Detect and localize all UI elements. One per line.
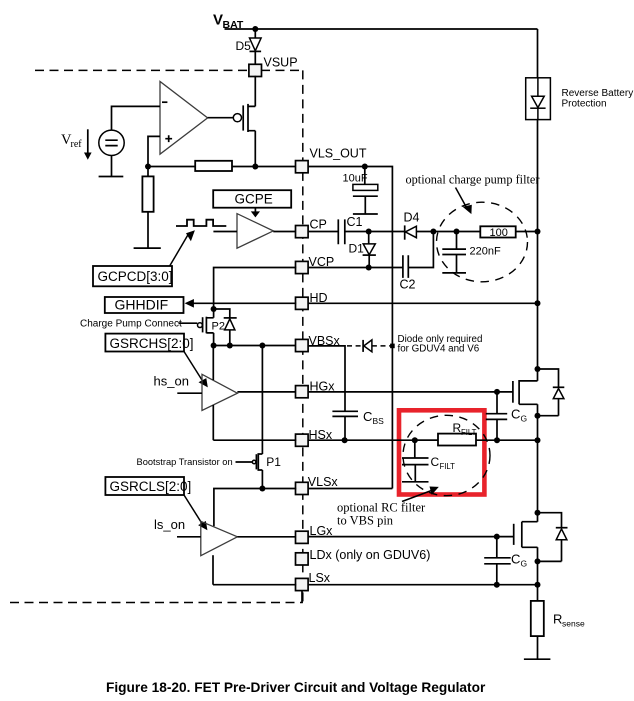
- svg-text:D1: D1: [349, 242, 365, 256]
- capacitor CBS bootstrap: [332, 409, 384, 440]
- dashed IC boundary top-right: [261, 69, 303, 71]
- svg-text:ls_on: ls_on: [154, 517, 185, 532]
- capacitor C1: [338, 215, 362, 244]
- junction CG-low bottom: [494, 582, 500, 588]
- svg-text:VSUP: VSUP: [264, 56, 298, 70]
- box GSRCHS[2:0]: [105, 334, 193, 352]
- svg-text:LDx (only on GDUV6): LDx (only on GDUV6): [310, 548, 431, 562]
- wire R1 to VLS_OUT pin: [232, 166, 296, 168]
- transistor Q3 PMOS pass device: [233, 104, 255, 132]
- wire U1 non-inverting input: [148, 136, 160, 166]
- wire VBAT rail to RBP: [537, 29, 539, 78]
- op-amp U1 regulator error amp: [160, 82, 208, 155]
- svg-text:C: C: [511, 552, 520, 567]
- junction P1 on VLSx line: [259, 486, 265, 492]
- svg-text:sense: sense: [562, 619, 585, 629]
- transistor P1 bootstrap: [252, 454, 281, 470]
- wire D5 anode: [254, 29, 256, 38]
- label Reverse Battery Protection: [562, 88, 634, 109]
- capacitor CG low-side: [484, 537, 527, 585]
- junction RC filter node: [412, 437, 418, 443]
- svg-text:Protection: Protection: [562, 98, 607, 109]
- dashed IC boundary top-left: [35, 69, 249, 71]
- wire VSUP to Q3 source: [254, 76, 256, 107]
- driver low-side gate driver: [177, 521, 237, 555]
- junction HD rail: [535, 300, 541, 306]
- ground under R2: [134, 247, 161, 249]
- box Reverse Battery Protection: [526, 78, 551, 120]
- junction D1 bottom on VCP line: [366, 265, 372, 271]
- svg-text:GSRCLS[2:0]: GSRCLS[2:0]: [110, 479, 192, 494]
- wire Q3 drain to VLS node: [254, 131, 256, 167]
- wire U1 inverting input: [112, 106, 161, 130]
- junction CG-low tap: [494, 534, 500, 540]
- pin VBSx: [296, 334, 341, 352]
- wire M1 source to phase rail: [537, 416, 539, 513]
- wire VLSx internal: [214, 489, 296, 527]
- label Vref: [61, 132, 82, 150]
- junction rail/filter: [535, 229, 541, 235]
- wire U1 output to Q3 gate: [208, 117, 234, 119]
- diode D1: [349, 232, 376, 268]
- square wave symbol charge pump clock: [176, 220, 226, 226]
- arrow GSRCHS leader to driver: [184, 352, 208, 388]
- wire LSx pin to boundary: [301, 590, 303, 603]
- box red highlight RC filter: [399, 410, 484, 494]
- transistor M2 external low-side FET: [514, 513, 538, 562]
- svg-text:VLS_OUT: VLS_OUT: [310, 147, 367, 161]
- arrow GCPCD leader: [170, 230, 195, 266]
- resistor Rsense: [531, 601, 585, 636]
- box GSRCLS[2:0]: [105, 477, 191, 495]
- wire VBSx external to CBS corner: [308, 346, 346, 411]
- junction P2 drain node: [211, 306, 217, 312]
- ground under Rsense: [524, 658, 551, 660]
- pin VCP: [296, 255, 335, 274]
- label optional RC filter to VBS pin: [337, 501, 426, 528]
- box GCPCD[3:0]: [93, 266, 173, 286]
- node VBAT label: [213, 12, 244, 32]
- wire LGx external to M2 gate: [308, 536, 514, 538]
- wire C2 up to charge pump node: [408, 232, 433, 268]
- svg-text:Bootstrap Transistor on: Bootstrap Transistor on: [137, 457, 233, 467]
- resistor R1 feedback: [195, 161, 232, 171]
- svg-text:P1: P1: [266, 455, 281, 469]
- junction M1 diode bottom: [535, 413, 541, 419]
- arrow GCPE to buffer: [251, 208, 260, 218]
- pin LGx: [296, 524, 334, 544]
- wire gate lead Charge Pump Connect: [179, 322, 198, 324]
- diode M2 body: [538, 513, 568, 562]
- junction M1 drain: [535, 366, 541, 372]
- junction M2 drain: [535, 510, 541, 516]
- driver high-side gate driver: [177, 374, 237, 410]
- wire LSx to Rsense: [537, 585, 539, 601]
- junction M1 source node: [535, 437, 541, 443]
- svg-text:BS: BS: [373, 416, 385, 426]
- node feedback junction: [145, 164, 151, 170]
- wire VBAT top rail: [225, 28, 538, 30]
- junction optional diode on VLS rail: [390, 344, 395, 349]
- wire VCP internal to P2 column: [214, 268, 297, 310]
- wire C1 to D4: [345, 231, 405, 233]
- source Vref: [99, 130, 124, 155]
- capacitor C2: [400, 255, 416, 291]
- pin LDx: [296, 548, 431, 565]
- wire D5 cathode to VSUP: [254, 51, 256, 65]
- resistor 100: [480, 226, 515, 239]
- svg-text:D4: D4: [404, 211, 420, 225]
- ground under Vref: [99, 176, 124, 178]
- buffer charge pump driver: [213, 214, 273, 249]
- junction Q3 drain on VLS line: [252, 164, 258, 170]
- svg-text:Charge Pump Connect: Charge Pump Connect: [80, 319, 182, 330]
- diode D4: [404, 211, 420, 240]
- svg-text:Figure 18-20. FET Pre-Driver C: Figure 18-20. FET Pre-Driver Circuit and…: [106, 680, 486, 695]
- wire driver output to HGx: [237, 391, 296, 393]
- arrow into GHHDIF: [185, 299, 194, 308]
- wire LSx external to M2 source: [308, 584, 538, 586]
- svg-text:optional charge pump filter: optional charge pump filter: [406, 173, 540, 187]
- wire HGx external to M1 gate: [308, 391, 514, 393]
- svg-text:for GDUV4 and V6: for GDUV4 and V6: [398, 344, 480, 355]
- wire driver bottom rail to LSx: [212, 555, 214, 585]
- transistor M1 external high-side FET: [513, 369, 538, 416]
- svg-text:C1: C1: [347, 215, 363, 229]
- wire HSx to RFILT: [415, 439, 438, 441]
- wire VLSx external to rail: [308, 488, 393, 490]
- wire Rsense to ground: [537, 636, 539, 659]
- junction bootstrap column top: [259, 343, 265, 349]
- svg-text:LGx: LGx: [310, 524, 334, 538]
- diode M1 body: [538, 369, 565, 416]
- diode across P2: [214, 309, 237, 346]
- svg-text:ref: ref: [71, 139, 83, 150]
- junction 10uF tap: [362, 164, 368, 170]
- svg-text:C2: C2: [400, 278, 416, 292]
- pin VSUP: [249, 56, 298, 77]
- junction VBAT/D5: [252, 26, 258, 32]
- svg-text:to VBS pin: to VBS pin: [337, 513, 394, 527]
- arrow leader RC filter note: [402, 487, 439, 502]
- resistor R2 divider lower: [142, 167, 153, 249]
- svg-text:FILT: FILT: [461, 428, 477, 437]
- svg-text:V: V: [213, 12, 223, 29]
- junction D1 top: [366, 229, 372, 235]
- svg-text:GCPE: GCPE: [235, 192, 273, 207]
- pin VLSx: [296, 475, 339, 495]
- wire driver output to LGx: [237, 536, 296, 538]
- svg-text:LSx: LSx: [309, 571, 331, 585]
- junction P2 diode on VBSx line: [227, 343, 233, 349]
- svg-text:hs_on: hs_on: [154, 373, 189, 388]
- junction CG-high tap: [494, 389, 500, 395]
- svg-text:G: G: [521, 559, 528, 569]
- svg-text:220nF: 220nF: [470, 246, 501, 258]
- pin VLS_OUT: [296, 147, 367, 173]
- svg-text:R: R: [553, 612, 562, 627]
- wire RBP down the rail: [537, 120, 539, 369]
- wire D4 to filter resistor: [416, 231, 480, 233]
- wire HSx internal: [213, 439, 296, 441]
- wire 100 to VBAT rail: [516, 231, 538, 233]
- wire bootstrap column: [261, 346, 263, 455]
- wire buffer to CP pin: [273, 231, 296, 233]
- svg-text:C: C: [363, 409, 372, 424]
- pin HGx: [296, 380, 336, 398]
- wire dashed optional diode left: [347, 345, 362, 347]
- svg-text:G: G: [521, 414, 528, 424]
- svg-text:VLSx: VLSx: [308, 475, 339, 489]
- wire P1 gate lead: [236, 461, 253, 463]
- wire driver top rail from VBSx: [212, 346, 214, 381]
- svg-text:100: 100: [490, 227, 508, 239]
- wire LSx internal: [213, 584, 296, 586]
- arrow GSRCLS leader to driver: [184, 495, 207, 530]
- pin CP: [296, 217, 327, 237]
- diode optional VBS diode: [363, 340, 372, 352]
- svg-text:C: C: [431, 455, 440, 469]
- capacitor CG high-side: [486, 392, 527, 440]
- capacitor CFILT: [402, 440, 455, 482]
- dashed circle optional charge pump filter: [437, 202, 528, 282]
- dashed IC boundary right vertical: [302, 70, 304, 602]
- svg-text:D5: D5: [236, 39, 252, 53]
- svg-text:GCPCD[3:0]: GCPCD[3:0]: [98, 269, 173, 284]
- wire CP to C1: [308, 231, 339, 233]
- junction CBS on HSx line: [342, 437, 348, 443]
- wire HSx external to M1 source: [308, 439, 538, 441]
- wire VBSx internal line: [214, 345, 297, 347]
- resistor RFILT: [438, 421, 477, 446]
- junction 220nF tap: [454, 229, 460, 235]
- capacitor 10uF: [343, 167, 378, 215]
- svg-text:C: C: [511, 407, 520, 422]
- pin HSx: [296, 428, 333, 447]
- capacitor 220nF: [442, 232, 501, 273]
- wire dashed optional diode right: [372, 345, 391, 347]
- wire driver bottom rail to HSx: [212, 405, 214, 440]
- wire node to R1: [148, 166, 195, 168]
- diode D5: [236, 38, 262, 53]
- dashed circle optional RC filter: [403, 415, 490, 495]
- svg-text:CP: CP: [310, 217, 327, 231]
- svg-text:P2: P2: [212, 320, 225, 332]
- arrow leader to filter circle: [456, 188, 472, 215]
- svg-text:FILT: FILT: [440, 462, 456, 471]
- junction M2 source on LSx: [535, 582, 541, 588]
- wire M2 source to LSx line: [537, 561, 539, 584]
- transistor P2 charge pump connect switch: [198, 309, 225, 346]
- arrow Vref polarity: [84, 129, 92, 160]
- pin HD: [296, 291, 328, 309]
- wire P1 to VLSx line: [261, 470, 263, 489]
- box GCPE control: [213, 190, 291, 208]
- wire HD external to rail: [308, 302, 538, 304]
- wire VCP external to C2: [308, 267, 403, 269]
- label Diode only required: [398, 334, 483, 354]
- junction charge pump node: [430, 229, 436, 235]
- pin LSx: [296, 571, 331, 591]
- junction P2 source on VBSx line: [211, 343, 217, 349]
- junction M2 diode bottom: [535, 558, 541, 564]
- wire VLS_OUT external rail: [308, 167, 393, 489]
- box GHHDIF: [105, 297, 184, 313]
- svg-text:10uF: 10uF: [343, 172, 368, 184]
- dashed IC boundary bottom: [10, 602, 303, 604]
- wire HD to GHHDIF arrow: [190, 302, 296, 304]
- junction CG-high bottom: [494, 437, 500, 443]
- svg-text:GSRCHS[2:0]: GSRCHS[2:0]: [110, 336, 194, 351]
- svg-text:GHHDIF: GHHDIF: [115, 297, 169, 313]
- wire Vref to ground: [111, 156, 113, 177]
